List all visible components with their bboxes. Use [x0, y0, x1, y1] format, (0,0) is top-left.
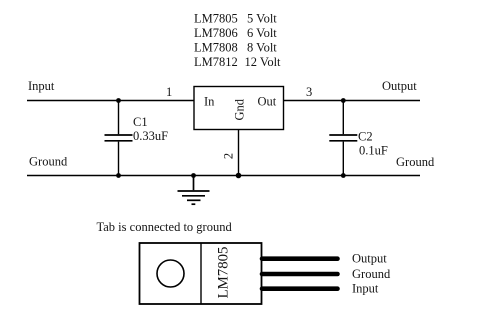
wire output rail	[284, 100, 421, 102]
svg-text:LM7806: LM7806	[194, 26, 238, 40]
value label LM7808 8 Volt	[194, 41, 277, 55]
svg-text:0.33uF: 0.33uF	[133, 129, 168, 143]
svg-text:12 Volt: 12 Volt	[245, 55, 282, 69]
value label LM7812 12 Volt	[194, 55, 281, 69]
value label LM7805 5 Volt	[194, 12, 277, 26]
wire input rail	[27, 100, 194, 102]
svg-text:1: 1	[166, 85, 172, 99]
svg-text:Gnd: Gnd	[233, 98, 247, 120]
svg-text:6 Volt: 6 Volt	[247, 26, 277, 40]
svg-text:LM7808: LM7808	[194, 41, 238, 55]
svg-text:Ground: Ground	[29, 155, 68, 169]
junction C1/ground rail	[116, 173, 121, 178]
wire C1 bottom lead	[118, 142, 120, 176]
svg-text:Input: Input	[352, 282, 379, 296]
pin Input lead	[262, 286, 338, 291]
svg-text:Output: Output	[382, 79, 417, 93]
svg-text:5 Volt: 5 Volt	[247, 12, 277, 26]
junction output/C2	[341, 98, 346, 103]
wire C1 top lead	[118, 101, 120, 135]
junction regulator gnd/ground rail	[236, 173, 242, 179]
capacitor C2	[329, 135, 357, 141]
package body outline	[140, 243, 262, 304]
package tab divider	[200, 243, 202, 304]
svg-text:LM7805: LM7805	[215, 247, 231, 299]
capacitor C1	[105, 135, 133, 141]
svg-text:2: 2	[222, 153, 236, 159]
svg-text:C2: C2	[358, 130, 373, 144]
svg-text:0.1uF: 0.1uF	[359, 144, 388, 158]
svg-text:8 Volt: 8 Volt	[247, 41, 277, 55]
junction input/C1	[116, 98, 121, 103]
svg-text:LM7805: LM7805	[194, 12, 238, 26]
ground	[178, 176, 210, 205]
junction ground symbol/ground rail	[191, 173, 196, 178]
svg-text:In: In	[204, 95, 215, 109]
svg-text:Out: Out	[258, 95, 277, 109]
wire C2 top lead	[342, 101, 344, 135]
svg-text:3: 3	[306, 85, 312, 99]
wire regulator gnd lead	[238, 130, 240, 176]
package mounting hole	[157, 260, 184, 287]
svg-text:LM7812: LM7812	[194, 55, 238, 69]
svg-text:C1: C1	[133, 115, 148, 129]
wire ground rail	[27, 175, 420, 177]
svg-text:Output: Output	[352, 252, 387, 266]
junction C2/ground rail	[341, 173, 346, 178]
wire C2 bottom lead	[342, 142, 344, 176]
svg-text:Input: Input	[28, 79, 55, 93]
svg-text:Ground: Ground	[352, 267, 391, 281]
pin Ground lead	[262, 272, 338, 277]
pin Output lead	[262, 256, 338, 261]
svg-text:Tab is connected to ground: Tab is connected to ground	[97, 220, 233, 234]
value label LM7806 6 Volt	[194, 26, 277, 40]
svg-text:Ground: Ground	[396, 155, 435, 169]
op-amp U1 regulator box	[194, 87, 284, 130]
